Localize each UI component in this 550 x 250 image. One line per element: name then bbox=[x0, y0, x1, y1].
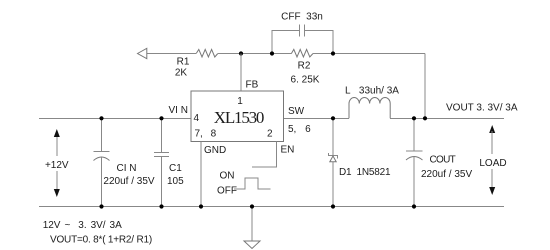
LOAD annotation bbox=[479, 125, 506, 195]
wire EN pin bend bbox=[252, 142, 276, 168]
ground symbol bbox=[244, 207, 260, 249]
svg-text:220uf / 35V: 220uf / 35V bbox=[103, 176, 154, 187]
svg-text:C1: C1 bbox=[169, 163, 182, 174]
wire SW rail from chip to inductor bbox=[284, 117, 350, 119]
node COUT bottom junction bbox=[412, 204, 416, 208]
svg-text:12V ~ 3. 3V/ 3A: 12V ~ 3. 3V/ 3A bbox=[43, 220, 122, 231]
svg-text:R1: R1 bbox=[177, 57, 190, 68]
svg-text:5, 6: 5, 6 bbox=[288, 124, 311, 135]
wire feedback drop to output rail bbox=[424, 54, 426, 119]
svg-text:2: 2 bbox=[267, 129, 273, 140]
svg-text:FB: FB bbox=[246, 80, 259, 91]
svg-text:6. 25K: 6. 25K bbox=[291, 75, 320, 86]
node CIN top junction bbox=[99, 116, 103, 120]
svg-text:CFF 33n: CFF 33n bbox=[281, 12, 323, 23]
wire top input rail VIN bbox=[39, 117, 191, 119]
feedback arrow bbox=[138, 48, 147, 58]
node CFF left junction bbox=[270, 51, 274, 55]
svg-text:1: 1 bbox=[237, 96, 243, 107]
svg-text:L 33uh/ 3A: L 33uh/ 3A bbox=[345, 86, 399, 97]
capacitor COUT bbox=[406, 118, 472, 206]
wire bottom ground rail bbox=[39, 206, 504, 208]
node D1 top junction bbox=[331, 116, 335, 120]
resistor R2 bbox=[291, 49, 320, 85]
svg-text:D1 1N5821: D1 1N5821 bbox=[339, 167, 391, 178]
node COUT top junction bbox=[412, 116, 416, 120]
inductor L bbox=[345, 86, 399, 119]
svg-text:VOUT 3. 3V/ 3A: VOUT 3. 3V/ 3A bbox=[446, 103, 518, 114]
diode D1 bbox=[329, 118, 392, 206]
svg-text:105: 105 bbox=[167, 176, 184, 187]
wire feedback line right segment bbox=[313, 53, 425, 55]
node feedback drop junction bbox=[423, 116, 427, 120]
ON/OFF waveform annotation bbox=[217, 171, 270, 197]
svg-text:EN: EN bbox=[281, 145, 295, 156]
svg-text:XL1530: XL1530 bbox=[214, 108, 264, 127]
svg-text:R2: R2 bbox=[298, 61, 311, 72]
svg-text:220uf / 35V: 220uf / 35V bbox=[421, 169, 472, 180]
node CFF right junction bbox=[331, 51, 335, 55]
svg-text:ON: ON bbox=[220, 171, 235, 182]
node CIN bottom junction bbox=[99, 204, 103, 208]
svg-text:+12V: +12V bbox=[45, 160, 69, 171]
wire GND pin to ground rail bbox=[200, 142, 202, 207]
svg-text:LOAD: LOAD bbox=[479, 158, 506, 169]
+12V source annotation bbox=[45, 129, 69, 197]
wire feedback line left segment bbox=[147, 53, 197, 55]
svg-text:GND: GND bbox=[204, 145, 226, 156]
capacitor C1 bbox=[154, 118, 184, 206]
svg-text:CI N: CI N bbox=[117, 163, 137, 174]
svg-text:SW: SW bbox=[288, 106, 305, 117]
capacitor CIN bbox=[94, 118, 155, 206]
resistor R1 bbox=[175, 49, 218, 78]
svg-text:2K: 2K bbox=[175, 68, 188, 79]
node FB junction on feedback line bbox=[239, 51, 243, 55]
wire FB tap down to chip pin 1 bbox=[240, 54, 242, 92]
op-amp U1 XL1530 chip body bbox=[191, 91, 284, 142]
svg-text:7, 8: 7, 8 bbox=[195, 129, 217, 140]
svg-text:COUT: COUT bbox=[430, 155, 456, 166]
capacitor CFF bbox=[272, 12, 333, 54]
wire output rail after inductor bbox=[390, 117, 504, 119]
node GND pin bottom junction bbox=[199, 204, 203, 208]
svg-text:4: 4 bbox=[194, 113, 200, 124]
node ground junction bbox=[250, 204, 254, 208]
node C1 top junction bbox=[159, 116, 163, 120]
svg-text:VI N: VI N bbox=[169, 105, 188, 116]
node D1 bottom junction bbox=[331, 204, 335, 208]
svg-text:VOUT=0. 8*( 1+R2/ R1): VOUT=0. 8*( 1+R2/ R1) bbox=[50, 235, 152, 246]
svg-text:OFF: OFF bbox=[217, 186, 237, 197]
wire feedback line mid segment bbox=[218, 53, 292, 55]
node C1 bottom junction bbox=[159, 204, 163, 208]
